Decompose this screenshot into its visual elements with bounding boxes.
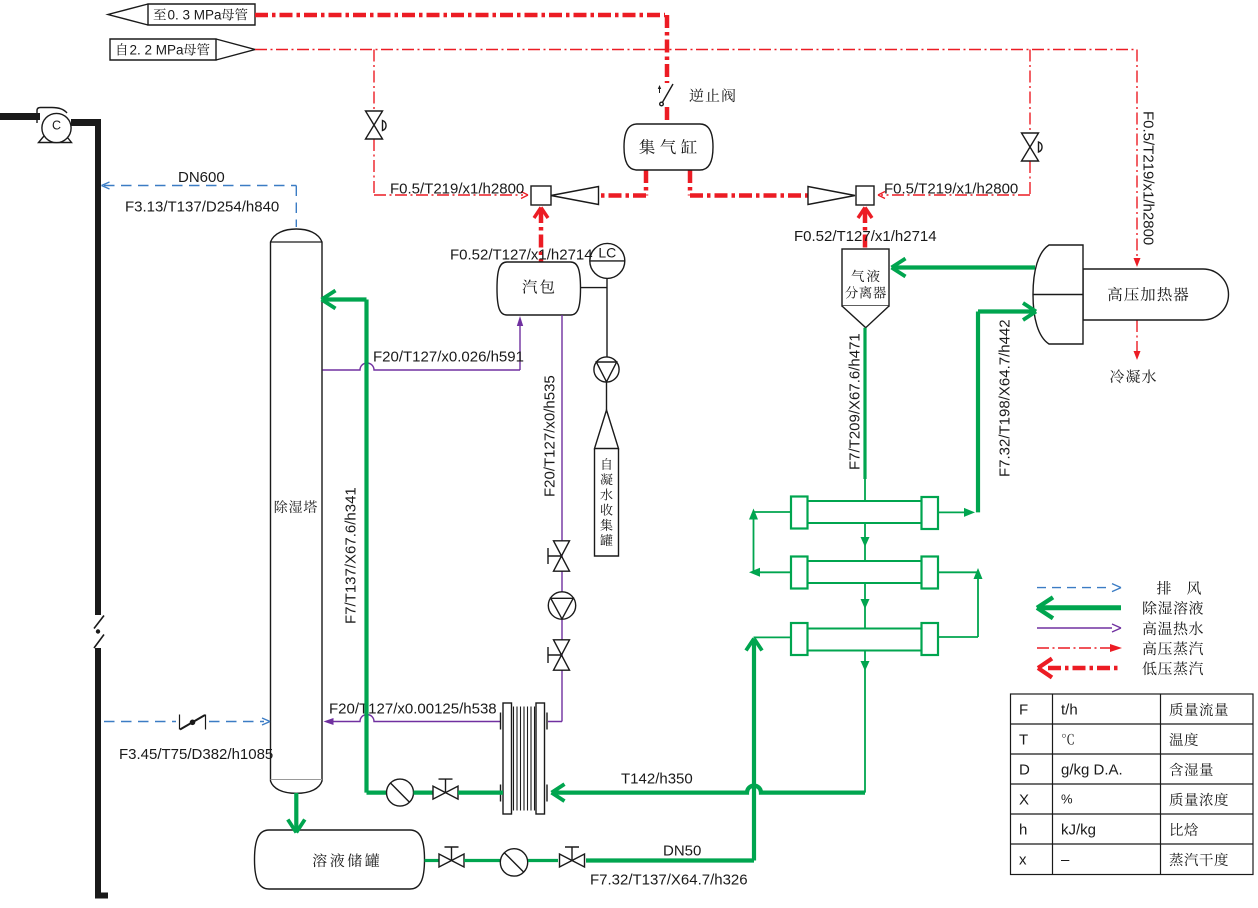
- svg-text:–: –: [1061, 852, 1070, 869]
- HP steam branch to right ejector: [881, 50, 1030, 196]
- solution pump at tower bottom: [387, 779, 414, 806]
- svg-text:F0.5/T219/x1/h2800: F0.5/T219/x1/h2800: [390, 181, 524, 198]
- svg-text:F0.5/T219/x1/h2800: F0.5/T219/x1/h2800: [884, 181, 1018, 198]
- svg-text:%: %: [1061, 792, 1073, 807]
- right steam ejector: [856, 186, 874, 205]
- svg-text:g/kg D.A.: g/kg D.A.: [1061, 762, 1123, 779]
- legend LP steam: [1048, 666, 1121, 671]
- svg-text:F7/T137/X67.6/h341: F7/T137/X67.6/h341: [343, 487, 360, 624]
- svg-text:F0.5/T219/x1/h2800: F0.5/T219/x1/h2800: [1140, 111, 1157, 245]
- valve before plate HX: [433, 786, 458, 799]
- HP heater 高压加热器: [1083, 269, 1229, 320]
- solution storage tank 溶液储罐: [255, 830, 425, 889]
- gas-liquid separator 气液分离器: [842, 249, 889, 306]
- LP steam riser from separator to right ejector: [863, 210, 868, 249]
- hot water riser steam drum to plate HX: [548, 315, 562, 722]
- steam drum 汽包: [497, 262, 581, 315]
- svg-text:F7.32/T137/X64.7/h326: F7.32/T137/X64.7/h326: [590, 872, 748, 889]
- legend HP steam: [1037, 647, 1110, 649]
- gas collector drum 集气缸: [624, 124, 713, 170]
- svg-text:F7/T209/X67.6/h471: F7/T209/X67.6/h471: [847, 333, 864, 470]
- fan C: [37, 108, 72, 143]
- svg-text:T: T: [1019, 732, 1028, 749]
- HP steam 2.2MPa header line: [255, 49, 1137, 51]
- hot water line tower to steam drum: [323, 322, 521, 370]
- tower outlet arrow into tank: [288, 820, 305, 833]
- svg-text:x: x: [1019, 852, 1027, 869]
- valve on riser (upper): [554, 541, 570, 571]
- check valve: [662, 84, 674, 104]
- exhaust duct wall vertical (lower): [95, 648, 108, 896]
- exhaust air line tower top to wall DN600: [104, 186, 296, 228]
- svg-text:F0.52/T127/x1/h2714: F0.52/T127/x1/h2714: [450, 247, 593, 264]
- exhaust duct wall top-left stub: [0, 113, 40, 120]
- tank valve 2: [560, 854, 585, 867]
- condensate pump (vertical): [594, 357, 619, 382]
- line pump to valve: [414, 790, 434, 794]
- svg-text:2. 2 MPa: 2. 2 MPa: [130, 43, 185, 58]
- svg-text:F20/T127/x0.00125/h538: F20/T127/x0.00125/h538: [329, 701, 497, 718]
- valve on left HP branch: [366, 111, 383, 139]
- legend exhaust air: [1037, 587, 1112, 589]
- dehumidification tower 除湿塔: [271, 229, 323, 793]
- legend table: [1011, 694, 1254, 875]
- tower bottom outlet: [294, 793, 298, 831]
- svg-text:F3.45/T75/D382/h1085: F3.45/T75/D382/h1085: [119, 746, 273, 763]
- svg-text:0. 3 MPa: 0. 3 MPa: [168, 8, 223, 23]
- LP steam line to 0.3MPa header: [255, 15, 667, 83]
- exhaust duct wall vertical (upper): [95, 119, 101, 615]
- svg-text:LC: LC: [598, 245, 616, 261]
- from 2.2MPa header box: [110, 39, 255, 60]
- T142 line into plate HX: [553, 786, 865, 793]
- svg-text:kJ/kg: kJ/kg: [1061, 822, 1096, 839]
- svg-text:F20/T127/x0.026/h591: F20/T127/x0.026/h591: [373, 349, 524, 366]
- valve on right HP branch: [1022, 133, 1039, 161]
- svg-text:F: F: [1019, 702, 1028, 719]
- legend solution: [1038, 605, 1121, 610]
- svg-text:F20/T127/x0/h535: F20/T127/x0/h535: [542, 375, 559, 497]
- svg-text:F7.32/T198/X64.7/h442: F7.32/T198/X64.7/h442: [997, 319, 1014, 477]
- tank valve 1: [439, 854, 464, 867]
- tube bank right connections: [938, 512, 978, 637]
- wall break symbol: [94, 616, 104, 649]
- svg-text:t/h: t/h: [1061, 702, 1078, 719]
- tube bank center stream + arrows: [864, 523, 866, 793]
- DN50 line: [586, 640, 754, 861]
- svg-text:h: h: [1019, 822, 1027, 839]
- spray tube 1: [808, 501, 922, 523]
- spray tube 2: [808, 561, 922, 583]
- valve on riser (lower): [554, 640, 570, 670]
- line valve to plate HX: [458, 790, 503, 794]
- svg-text:DN600: DN600: [178, 169, 225, 186]
- solution line heater to separator: [893, 265, 1035, 269]
- condensate collection tank 自凝水收集罐: [595, 410, 619, 556]
- plate heat exchanger: [503, 703, 512, 814]
- svg-text:D: D: [1019, 762, 1030, 779]
- line pump to collection tank: [606, 382, 608, 410]
- tank pump: [500, 849, 527, 876]
- solution line separator to tube bank: [863, 328, 866, 479]
- to 0.3MPa header box: [108, 4, 255, 25]
- LP steam drum right nozzle line: [690, 170, 808, 196]
- solution riser to heater F7.32: [978, 312, 1034, 513]
- LP steam drum left nozzle line: [600, 170, 646, 196]
- HP steam branch to left ejector: [374, 50, 523, 196]
- LC level controller: [581, 278, 608, 357]
- left steam ejector: [531, 186, 551, 205]
- solution line into tower: [323, 300, 387, 793]
- exhaust duct wall top segment: [71, 119, 98, 126]
- svg-text:F0.52/T127/x1/h2714: F0.52/T127/x1/h2714: [794, 228, 937, 245]
- pump on riser: [548, 592, 575, 619]
- spray tube 3: [808, 629, 922, 651]
- LP steam line check valve to drum: [665, 107, 670, 124]
- tank outlet line: [425, 859, 440, 862]
- condensate outlet line: [1136, 320, 1138, 352]
- HP steam line to heater: [1136, 50, 1138, 260]
- tube bank left connections: [754, 512, 792, 637]
- svg-text:F3.13/T137/D254/h840: F3.13/T137/D254/h840: [125, 199, 279, 216]
- supply air line wall to tower: [104, 721, 264, 723]
- svg-text:C: C: [52, 119, 61, 133]
- svg-text:X: X: [1019, 792, 1029, 809]
- legend hot water: [1037, 627, 1112, 629]
- svg-text:DN50: DN50: [663, 843, 701, 860]
- damper on supply air line: [180, 715, 206, 730]
- svg-text:T142/h350: T142/h350: [621, 771, 693, 788]
- LP steam riser from steam drum to left ejector: [539, 210, 544, 262]
- hot water return plate HX to tower: [330, 715, 500, 722]
